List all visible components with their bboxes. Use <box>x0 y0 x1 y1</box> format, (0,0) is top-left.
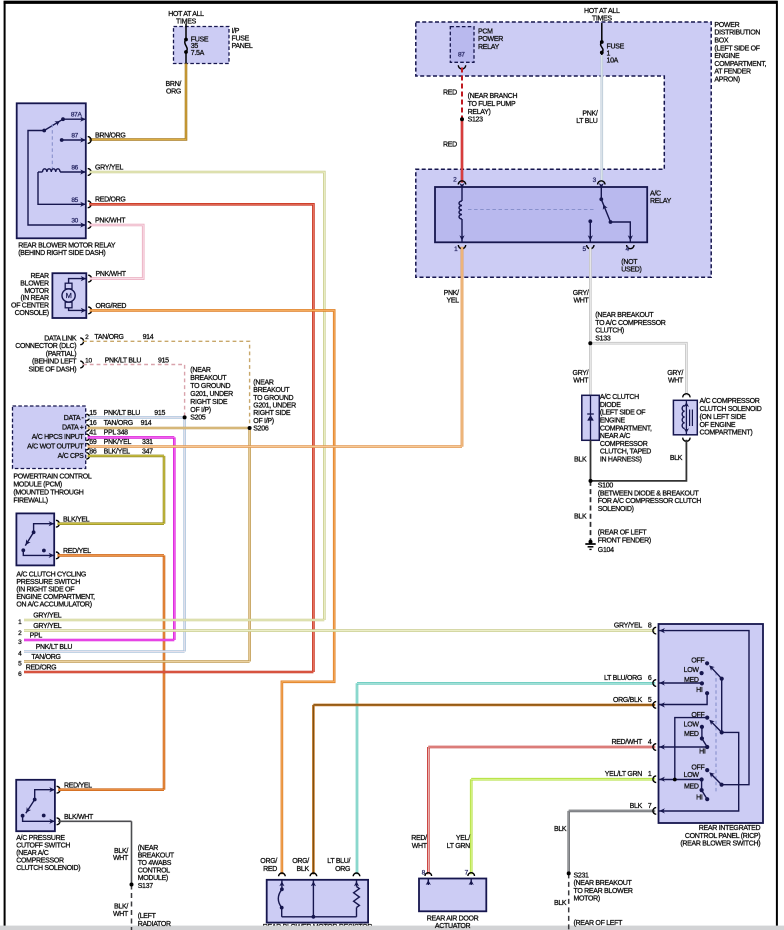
svg-text:OF I/P): OF I/P) <box>253 418 273 425</box>
svg-text:HI: HI <box>696 794 703 801</box>
svg-text:MED: MED <box>684 784 699 791</box>
svg-text:347: 347 <box>142 448 153 455</box>
svg-text:FOR A/C COMPRESSOR CLUTCH: FOR A/C COMPRESSOR CLUTCH <box>598 498 702 505</box>
svg-text:COMPARTMENT): COMPARTMENT) <box>700 430 753 437</box>
svg-text:6: 6 <box>648 675 652 682</box>
svg-text:TO REAR BLOWER: TO REAR BLOWER <box>574 888 633 895</box>
svg-text:REAR BLOWER MOTOR RELAY: REAR BLOWER MOTOR RELAY <box>18 243 116 250</box>
svg-text:87: 87 <box>458 52 465 59</box>
svg-text:7.5A: 7.5A <box>191 50 205 57</box>
svg-text:87A: 87A <box>71 112 83 119</box>
svg-text:HOT AT ALL: HOT AT ALL <box>168 11 204 18</box>
svg-text:(NEAR BRANCH: (NEAR BRANCH <box>468 93 518 100</box>
svg-text:BLK: BLK <box>297 866 310 873</box>
svg-text:5: 5 <box>648 697 652 704</box>
svg-text:(NEAR BREAKOUT: (NEAR BREAKOUT <box>595 312 654 319</box>
svg-text:A/C HPCS INPUT: A/C HPCS INPUT <box>32 434 85 441</box>
svg-text:30: 30 <box>71 218 78 225</box>
svg-text:(LEFT: (LEFT <box>138 913 157 920</box>
svg-text:331: 331 <box>142 439 153 446</box>
svg-text:RED/YEL: RED/YEL <box>64 782 92 789</box>
svg-text:BOX: BOX <box>714 38 729 45</box>
svg-text:(REAR BLOWER SWITCH): (REAR BLOWER SWITCH) <box>680 841 760 848</box>
svg-text:BLK/: BLK/ <box>114 848 128 855</box>
svg-text:RED: RED <box>443 89 457 96</box>
svg-text:DATA +: DATA + <box>62 424 84 431</box>
svg-text:S137: S137 <box>138 883 154 890</box>
svg-text:(LEFT SIDE OF: (LEFT SIDE OF <box>714 45 759 52</box>
svg-text:GRY/: GRY/ <box>667 370 683 377</box>
svg-text:TO GROUND: TO GROUND <box>190 383 230 390</box>
svg-text:BLK: BLK <box>574 456 587 463</box>
svg-text:TAN/ORG: TAN/ORG <box>31 654 60 661</box>
svg-text:BLK/YEL: BLK/YEL <box>63 516 90 523</box>
svg-text:(IN RIGHT SIDE OF: (IN RIGHT SIDE OF <box>16 586 74 593</box>
svg-text:HI: HI <box>696 687 703 694</box>
svg-text:RED/ORG: RED/ORG <box>95 197 126 204</box>
svg-text:10: 10 <box>85 357 92 364</box>
svg-text:BREAKOUT: BREAKOUT <box>138 853 175 860</box>
svg-text:REAR AIR DOOR: REAR AIR DOOR <box>427 915 479 922</box>
svg-text:ENGINE COMPARTMENT,: ENGINE COMPARTMENT, <box>16 594 95 601</box>
svg-text:ORG/: ORG/ <box>260 858 277 865</box>
svg-text:LT BLU: LT BLU <box>576 118 598 125</box>
svg-text:69: 69 <box>89 439 97 446</box>
svg-text:DIODE: DIODE <box>600 402 621 409</box>
svg-text:ORG: ORG <box>166 89 181 96</box>
svg-text:DISTRIBUTION: DISTRIBUTION <box>714 30 760 37</box>
svg-text:LOW: LOW <box>684 667 700 674</box>
svg-text:YEL/LT GRN: YEL/LT GRN <box>605 771 642 778</box>
svg-text:86: 86 <box>71 165 78 172</box>
svg-text:MED: MED <box>684 677 699 684</box>
svg-text:10A: 10A <box>607 58 619 65</box>
svg-text:APRON): APRON) <box>714 77 739 84</box>
svg-text:TO 4WABS: TO 4WABS <box>138 860 172 867</box>
svg-text:AT FENDER: AT FENDER <box>714 69 751 76</box>
svg-text:LOW: LOW <box>684 772 700 779</box>
svg-text:FIREWALL): FIREWALL) <box>13 497 47 504</box>
svg-text:TIMES: TIMES <box>592 16 613 23</box>
svg-text:GRY/YEL: GRY/YEL <box>33 613 62 620</box>
svg-text:MODULE): MODULE) <box>138 875 168 882</box>
svg-text:BLK: BLK <box>630 803 643 810</box>
svg-text:USED): USED) <box>621 266 641 273</box>
svg-text:WHT: WHT <box>113 911 129 918</box>
svg-text:SOLENOID): SOLENOID) <box>598 506 634 513</box>
svg-text:WHT: WHT <box>573 378 589 385</box>
svg-text:MOTOR): MOTOR) <box>574 896 600 903</box>
svg-text:87: 87 <box>71 133 78 140</box>
svg-text:915: 915 <box>158 357 169 364</box>
svg-text:A/C WOT OUTPUT: A/C WOT OUTPUT <box>27 443 84 450</box>
svg-text:GRY/YEL: GRY/YEL <box>95 164 124 171</box>
svg-text:RADIATOR: RADIATOR <box>138 921 171 928</box>
svg-text:A/C CLUTCH: A/C CLUTCH <box>600 394 639 401</box>
svg-text:RELAY: RELAY <box>650 198 672 205</box>
svg-text:ORG/RED: ORG/RED <box>96 303 127 310</box>
svg-text:A/C CLUTCH CYCLING: A/C CLUTCH CYCLING <box>16 571 86 578</box>
svg-text:CONSOLE): CONSOLE) <box>15 310 49 317</box>
svg-text:FRONT FENDER): FRONT FENDER) <box>598 537 651 544</box>
svg-text:8: 8 <box>648 623 652 630</box>
svg-text:PPL: PPL <box>30 633 43 640</box>
svg-text:GRY/YEL: GRY/YEL <box>33 623 62 630</box>
svg-text:COMPARTMENT,: COMPARTMENT, <box>714 61 766 68</box>
svg-text:PNK/LT BLU: PNK/LT BLU <box>36 644 73 651</box>
svg-text:ORG: ORG <box>335 866 350 873</box>
svg-text:1: 1 <box>648 771 652 778</box>
svg-text:BRN/ORG: BRN/ORG <box>95 132 126 139</box>
svg-text:A/C: A/C <box>650 190 661 197</box>
svg-text:(LEFT SIDE OF: (LEFT SIDE OF <box>600 410 645 417</box>
svg-text:GRY/: GRY/ <box>573 290 589 297</box>
svg-text:ON A/C ACCUMULATOR): ON A/C ACCUMULATOR) <box>16 601 91 608</box>
svg-text:(NEAR BREAKOUT: (NEAR BREAKOUT <box>574 880 633 887</box>
svg-text:(NEAR: (NEAR <box>138 845 159 852</box>
svg-text:FUSE: FUSE <box>232 36 250 43</box>
svg-text:(MOUNTED THROUGH: (MOUNTED THROUGH <box>13 489 83 496</box>
svg-text:RED/WHT: RED/WHT <box>611 739 643 746</box>
svg-text:RED/YEL: RED/YEL <box>63 548 91 555</box>
svg-text:ENGINE: ENGINE <box>600 418 626 425</box>
svg-text:BLOWER: BLOWER <box>20 280 49 287</box>
svg-text:RED/ORG: RED/ORG <box>26 665 57 672</box>
svg-text:PNK/WHT: PNK/WHT <box>95 217 126 224</box>
svg-text:BLK/: BLK/ <box>114 904 128 911</box>
svg-text:BRN/: BRN/ <box>165 81 181 88</box>
svg-text:GRY/: GRY/ <box>573 370 589 377</box>
svg-text:CONTROL PANEL (RICP): CONTROL PANEL (RICP) <box>685 833 760 840</box>
svg-text:S206: S206 <box>253 426 269 433</box>
svg-text:YEL: YEL <box>446 298 459 305</box>
svg-text:41: 41 <box>89 429 97 436</box>
svg-text:HI: HI <box>699 748 706 755</box>
svg-text:1: 1 <box>607 50 611 57</box>
svg-text:POWERTRAIN CONTROL: POWERTRAIN CONTROL <box>13 474 91 481</box>
svg-text:OF I/P): OF I/P) <box>190 407 210 414</box>
svg-text:MOTOR: MOTOR <box>24 288 49 295</box>
svg-text:85: 85 <box>71 197 78 204</box>
svg-text:ACTUATOR: ACTUATOR <box>435 923 471 930</box>
svg-text:A/C PRESSURE: A/C PRESSURE <box>16 835 65 842</box>
svg-text:S123: S123 <box>468 117 484 124</box>
svg-text:PANEL: PANEL <box>232 43 253 50</box>
svg-text:MED: MED <box>684 731 699 738</box>
svg-text:G201, UNDER: G201, UNDER <box>190 391 233 398</box>
svg-text:ORG/BLK: ORG/BLK <box>613 697 643 704</box>
svg-text:POWER: POWER <box>714 22 739 29</box>
svg-text:G201, UNDER: G201, UNDER <box>253 403 296 410</box>
svg-text:BLK: BLK <box>574 514 587 521</box>
svg-text:(BEHIND LEFT: (BEHIND LEFT <box>32 359 77 366</box>
svg-text:914: 914 <box>141 420 152 427</box>
svg-text:S100: S100 <box>598 483 614 490</box>
svg-text:86: 86 <box>89 448 97 455</box>
svg-text:A/C CPS: A/C CPS <box>58 453 85 460</box>
svg-text:CLUTCH SOLENOID: CLUTCH SOLENOID <box>700 406 762 413</box>
svg-text:A/C COMPRESSOR: A/C COMPRESSOR <box>700 398 760 405</box>
svg-text:BLK: BLK <box>554 900 567 907</box>
svg-text:G104: G104 <box>598 547 614 554</box>
svg-text:DATA LINK: DATA LINK <box>44 336 77 343</box>
svg-text:TAN/ORG: TAN/ORG <box>104 420 133 427</box>
svg-text:OFF: OFF <box>691 658 704 665</box>
svg-text:MODULE (PCM): MODULE (PCM) <box>13 482 62 489</box>
svg-text:LT BLU/ORG: LT BLU/ORG <box>604 675 642 682</box>
svg-text:DATA -: DATA - <box>64 415 85 422</box>
svg-text:BLK: BLK <box>554 826 567 833</box>
svg-text:NEAR A/C: NEAR A/C <box>600 433 631 440</box>
svg-text:(IN REAR: (IN REAR <box>20 295 49 302</box>
svg-text:S231: S231 <box>574 872 590 879</box>
svg-text:WHT: WHT <box>668 378 684 385</box>
svg-text:RIGHT SIDE: RIGHT SIDE <box>253 410 291 417</box>
svg-text:(PARTIAL): (PARTIAL) <box>46 351 77 358</box>
svg-text:COMPRESSOR: COMPRESSOR <box>16 858 64 865</box>
svg-text:CLUTCH, TAPED: CLUTCH, TAPED <box>600 449 651 456</box>
svg-text:I/P: I/P <box>232 28 240 35</box>
svg-text:ORG/: ORG/ <box>292 858 309 865</box>
svg-text:TO FUEL PUMP: TO FUEL PUMP <box>468 101 516 108</box>
svg-text:348: 348 <box>117 429 128 436</box>
svg-text:HOT AT ALL: HOT AT ALL <box>584 8 620 15</box>
svg-text:LT GRN: LT GRN <box>447 843 470 850</box>
svg-text:REAR: REAR <box>31 273 49 280</box>
svg-text:RED: RED <box>443 142 457 149</box>
svg-text:BLK/YEL: BLK/YEL <box>104 448 131 455</box>
svg-text:ENGINE: ENGINE <box>714 53 740 60</box>
svg-text:4: 4 <box>648 739 652 746</box>
svg-text:COMPARTMENT,: COMPARTMENT, <box>600 425 652 432</box>
svg-text:S205: S205 <box>190 415 206 422</box>
svg-text:POWER: POWER <box>478 36 503 43</box>
svg-text:BLK: BLK <box>670 455 683 462</box>
svg-text:PPL: PPL <box>104 429 117 436</box>
svg-text:COMPRESSOR: COMPRESSOR <box>600 441 648 448</box>
svg-text:PRESSURE SWITCH: PRESSURE SWITCH <box>16 579 80 586</box>
svg-text:(NEAR: (NEAR <box>190 367 211 374</box>
svg-text:CLUTCH): CLUTCH) <box>595 328 624 335</box>
svg-text:914: 914 <box>143 334 154 341</box>
svg-text:TO A/C COMPRESSOR: TO A/C COMPRESSOR <box>595 320 665 327</box>
svg-text:SIDE OF DASH): SIDE OF DASH) <box>28 366 76 373</box>
svg-text:OFF: OFF <box>691 712 704 719</box>
svg-text:(NOT: (NOT <box>621 259 638 266</box>
svg-text:(NEAR: (NEAR <box>253 379 274 386</box>
svg-text:(REAR OF LEFT: (REAR OF LEFT <box>598 530 648 537</box>
svg-text:CONTROL: CONTROL <box>138 868 171 875</box>
svg-text:BREAKOUT: BREAKOUT <box>253 387 290 394</box>
svg-text:PNK/WHT: PNK/WHT <box>96 271 127 278</box>
svg-text:RELAY): RELAY) <box>468 109 491 116</box>
svg-text:PCM: PCM <box>478 28 493 35</box>
svg-text:REAR INTEGRATED: REAR INTEGRATED <box>699 825 761 832</box>
svg-text:PNK/: PNK/ <box>582 111 597 118</box>
svg-text:PNK/: PNK/ <box>444 290 459 297</box>
svg-text:WHT: WHT <box>573 298 589 305</box>
svg-text:BREAKOUT: BREAKOUT <box>190 375 227 382</box>
svg-text:PNK/LT BLU: PNK/LT BLU <box>105 357 142 364</box>
svg-text:IN HARNESS): IN HARNESS) <box>600 457 642 464</box>
svg-text:(REAR OF LEFT: (REAR OF LEFT <box>574 920 624 927</box>
svg-text:YEL/: YEL/ <box>456 835 470 842</box>
svg-text:OF ENGINE: OF ENGINE <box>700 422 736 429</box>
svg-text:BLK/WHT: BLK/WHT <box>64 814 94 821</box>
svg-text:S133: S133 <box>595 336 611 343</box>
svg-text:(BEHIND RIGHT SIDE DASH): (BEHIND RIGHT SIDE DASH) <box>18 250 105 257</box>
svg-text:TAN/ORG: TAN/ORG <box>94 334 123 341</box>
svg-text:CONNECTOR (DLC): CONNECTOR (DLC) <box>15 343 76 350</box>
svg-text:OF CENTER: OF CENTER <box>11 303 49 310</box>
svg-text:GRY/YEL: GRY/YEL <box>614 623 643 630</box>
svg-text:RED: RED <box>263 866 277 873</box>
svg-text:WHT: WHT <box>412 843 428 850</box>
svg-text:16: 16 <box>89 420 97 427</box>
svg-text:(BETWEEN DIODE & BREAKOUT: (BETWEEN DIODE & BREAKOUT <box>598 490 700 497</box>
svg-text:CLUTCH SOLENOID): CLUTCH SOLENOID) <box>16 865 80 872</box>
svg-text:CUTOFF SWITCH: CUTOFF SWITCH <box>16 843 70 850</box>
svg-text:WHT: WHT <box>113 855 129 862</box>
svg-text:OFF: OFF <box>691 764 704 771</box>
svg-text:TO GROUND: TO GROUND <box>253 395 293 402</box>
svg-text:M: M <box>66 291 72 300</box>
svg-text:RED/: RED/ <box>411 835 427 842</box>
svg-text:RIGHT SIDE: RIGHT SIDE <box>190 399 228 406</box>
svg-text:RELAY: RELAY <box>478 44 500 51</box>
svg-text:(ON LEFT SIDE: (ON LEFT SIDE <box>700 414 747 421</box>
svg-text:PNK/YEL: PNK/YEL <box>104 439 132 446</box>
svg-text:(NEAR A/C: (NEAR A/C <box>16 850 49 857</box>
svg-text:7: 7 <box>648 803 652 810</box>
svg-text:LT BLU/: LT BLU/ <box>327 858 350 865</box>
svg-text:LOW: LOW <box>684 721 700 728</box>
